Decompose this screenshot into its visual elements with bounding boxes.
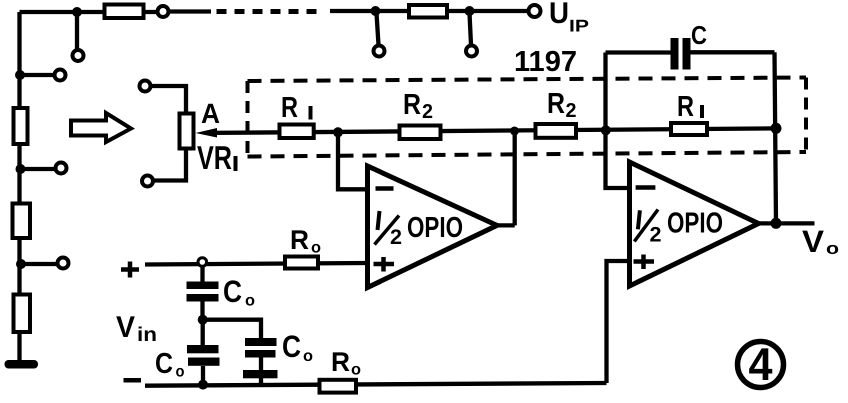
svg-text:2: 2: [650, 224, 662, 247]
svg-text:C: C: [691, 20, 707, 50]
svg-text:2: 2: [566, 100, 577, 122]
svg-text:R: R: [331, 347, 350, 377]
svg-text:2: 2: [422, 101, 433, 123]
svg-text:R: R: [403, 89, 421, 121]
svg-text:4: 4: [749, 338, 773, 390]
svg-text:V: V: [802, 224, 824, 259]
svg-text:o: o: [303, 348, 313, 365]
svg-text:V: V: [116, 311, 135, 344]
svg-text:R: R: [290, 225, 309, 255]
svg-text:o: o: [176, 364, 185, 381]
svg-text:OPIO: OPIO: [407, 212, 463, 244]
svg-text:C: C: [155, 348, 173, 380]
svg-text:o: o: [245, 293, 255, 310]
svg-text:A: A: [201, 98, 220, 129]
svg-text:C: C: [223, 274, 242, 309]
svg-text:U: U: [549, 0, 569, 30]
svg-text:OPIO: OPIO: [667, 208, 723, 240]
svg-text:2: 2: [390, 226, 402, 249]
svg-text:C: C: [282, 329, 301, 364]
svg-text:IP: IP: [569, 17, 589, 36]
svg-text:VR: VR: [197, 139, 232, 176]
svg-text:1197: 1197: [514, 46, 577, 78]
svg-text:R: R: [547, 88, 565, 120]
svg-text:o: o: [826, 239, 839, 258]
svg-text:R: R: [281, 92, 298, 124]
svg-text:R: R: [677, 91, 694, 123]
svg-text:o: o: [351, 362, 361, 379]
svg-text:in: in: [137, 324, 157, 346]
svg-text:o: o: [311, 240, 321, 257]
